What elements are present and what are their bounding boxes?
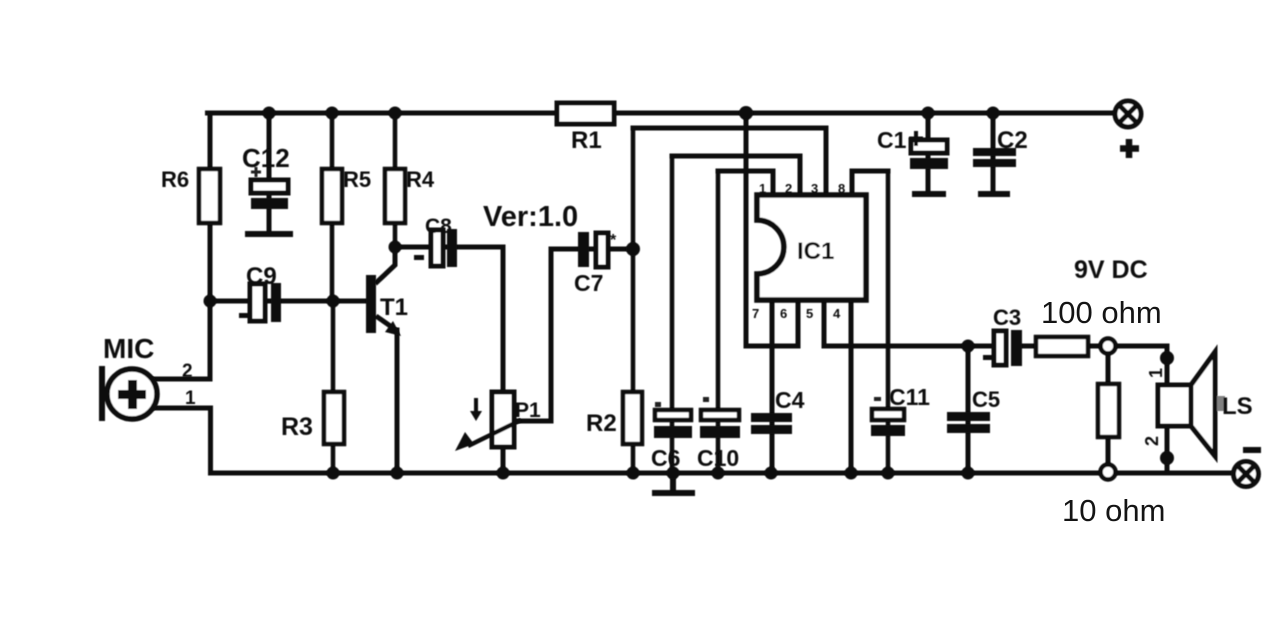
resistor R5 [322, 169, 342, 223]
node rail C4 [765, 467, 778, 480]
wire R4 branch [393, 113, 398, 247]
svg-text:R4: R4 [406, 167, 435, 192]
wire C11 branch [886, 171, 891, 473]
svg-text:6: 6 [780, 306, 787, 321]
svg-text:T1: T1 [380, 294, 408, 321]
svg-text:1: 1 [1146, 368, 1166, 378]
svg-text:1: 1 [759, 181, 766, 196]
capacitor C3 [994, 331, 1006, 365]
resistor R4 [385, 169, 405, 223]
wire R3 branch [331, 301, 336, 473]
node rail C5 [962, 467, 975, 480]
wire C2 lead [991, 113, 996, 191]
svg-text:2: 2 [785, 181, 792, 196]
node collector [389, 241, 402, 254]
node top rail R5 [326, 107, 339, 120]
wire collector stub [377, 247, 395, 282]
wire base node [210, 299, 366, 304]
wire C10 to IC pin 1 [718, 171, 773, 196]
node speaker 2 [1160, 451, 1174, 465]
svg-text:10 ohm: 10 ohm [1062, 493, 1165, 528]
capacitor C7 [578, 232, 589, 267]
capacitor C8 [431, 230, 443, 266]
node top rail C2 [987, 107, 1000, 120]
wire P1 to rail [501, 447, 506, 473]
potentiometer P1 wiper arrow [468, 420, 521, 446]
polarity C1 + [909, 131, 923, 146]
terminal + (9V DC) [1115, 101, 1141, 127]
wire R5 branch [330, 113, 335, 301]
microphone MIC [107, 369, 157, 419]
svg-text:C3: C3 [993, 305, 1021, 330]
wire top rail right [614, 111, 1116, 116]
svg-text:C8: C8 [425, 215, 452, 238]
capacitor C11 [872, 409, 904, 420]
svg-text:MIC: MIC [103, 333, 154, 364]
svg-text:C1: C1 [877, 127, 907, 153]
wire C8 to P1 [395, 247, 503, 392]
svg-text:P1: P1 [515, 399, 541, 422]
ground under C6 [655, 473, 692, 493]
node output C5 [962, 340, 975, 353]
wire 100ohm to node [1088, 344, 1101, 349]
svg-text:3: 3 [811, 181, 818, 196]
wire mic pin2 [150, 377, 210, 382]
node rail P1 [497, 467, 510, 480]
resistor R2 [623, 392, 642, 444]
potentiometer P1 body [492, 392, 514, 447]
wire top rail left [208, 111, 557, 116]
svg-text:C12: C12 [242, 143, 290, 173]
wire output IC pin 5 to C3 [824, 300, 992, 346]
svg-text:4: 4 [833, 306, 841, 321]
wire C6 to IC pin 2 [672, 156, 800, 196]
wire IC pin 8 to C11 [852, 171, 888, 196]
wire left vertical upper [208, 113, 213, 379]
wire C1 lead [926, 113, 931, 191]
svg-text:R2: R2 [586, 410, 617, 437]
ground bar C12 [248, 231, 290, 237]
svg-text:Ver:1.0: Ver:1.0 [483, 201, 578, 233]
wire V+ feed to IC pin 6 [746, 113, 798, 346]
wire input to IC pin 3 [633, 128, 826, 196]
svg-text:2: 2 [1142, 436, 1162, 446]
terminal - [1234, 462, 1259, 487]
node top rail C12 [263, 107, 276, 120]
svg-text:R3: R3 [281, 413, 313, 441]
node base R3 [327, 295, 340, 308]
loudspeaker LS [1158, 385, 1191, 426]
capacitor C1 [911, 140, 947, 153]
node ring top [1101, 339, 1116, 354]
node C7 out [626, 242, 640, 256]
capacitor C2 [973, 148, 1016, 156]
node rail C11 [882, 467, 895, 480]
plus mark [1120, 139, 1139, 158]
svg-text:7: 7 [752, 306, 759, 321]
capacitor C5 [947, 412, 990, 421]
svg-text:C11: C11 [889, 384, 930, 410]
svg-text:R6: R6 [161, 167, 189, 192]
resistor R1 [557, 103, 614, 124]
node ring bottom [1101, 465, 1116, 480]
capacitor C9 [250, 284, 265, 321]
node speaker 1 [1160, 351, 1174, 365]
node base left [204, 295, 217, 308]
svg-text:C9: C9 [246, 263, 277, 290]
svg-text:2: 2 [182, 361, 193, 382]
op-amp IC1 [757, 195, 866, 300]
wire IC pin 7 through C4 to rail [770, 300, 775, 473]
node rail R3 [327, 467, 340, 480]
svg-text:C6: C6 [651, 445, 680, 471]
resistor 10 ohm [1098, 384, 1119, 437]
capacitor C4 [751, 413, 792, 422]
node rail R2 [627, 467, 640, 480]
capacitor C12 [251, 180, 288, 193]
wire C3 to 100ohm [1022, 344, 1036, 349]
wire C5 branch [966, 346, 971, 473]
wire bottom rail [211, 471, 1236, 476]
node rail pin4 [845, 467, 858, 480]
wire mic pin1 to ground rail [150, 408, 211, 473]
capacitor C6 [655, 410, 691, 420]
svg-text:*: * [610, 232, 617, 249]
wire C7 node vertical / R2 branch [631, 128, 636, 473]
svg-text:R1: R1 [571, 127, 602, 154]
svg-text:1: 1 [185, 388, 196, 409]
svg-text:C2: C2 [997, 127, 1028, 154]
ground bar C2 [981, 191, 1007, 197]
wire C12 lead [267, 113, 272, 232]
resistor R6 [199, 169, 220, 223]
wire 10ohm leads [1106, 353, 1111, 465]
svg-text:R5: R5 [343, 167, 371, 192]
node rail C6 [667, 467, 680, 480]
capacitor C10 [701, 410, 739, 420]
ground bar C1 [915, 191, 943, 197]
svg-text:C5: C5 [972, 387, 1000, 412]
wire C10 branch [716, 171, 721, 473]
svg-text:C4: C4 [775, 387, 805, 413]
resistor R3 [324, 392, 344, 444]
svg-text:LS: LS [1222, 393, 1253, 420]
wire C6 branch [670, 156, 675, 473]
minus mark [1243, 447, 1261, 453]
wire emitter to rail [395, 330, 400, 473]
wire node to speaker pin1 [1115, 346, 1167, 385]
wire C7 row [551, 247, 633, 252]
svg-text:5: 5 [806, 306, 813, 321]
svg-text:9V DC: 9V DC [1074, 256, 1148, 284]
wire P1 wiper to C7 [517, 249, 551, 421]
node rail C10 [712, 467, 725, 480]
transistor T1 [366, 275, 376, 333]
node top rail R4 [389, 107, 402, 120]
resistor 100 ohm [1036, 337, 1088, 356]
node top rail V+ [739, 106, 753, 120]
P1 adjust mark arrow [474, 398, 478, 412]
node rail T1 [391, 467, 404, 480]
node top rail C1 [922, 107, 935, 120]
svg-text:8: 8 [838, 181, 845, 196]
svg-text:C10: C10 [697, 445, 739, 471]
wire IC pin 4 to rail [849, 300, 854, 473]
svg-text:100 ohm: 100 ohm [1041, 295, 1162, 330]
svg-text:C7: C7 [574, 270, 603, 296]
wire speaker pin2 [1165, 426, 1170, 473]
svg-text:IC1: IC1 [797, 238, 834, 265]
